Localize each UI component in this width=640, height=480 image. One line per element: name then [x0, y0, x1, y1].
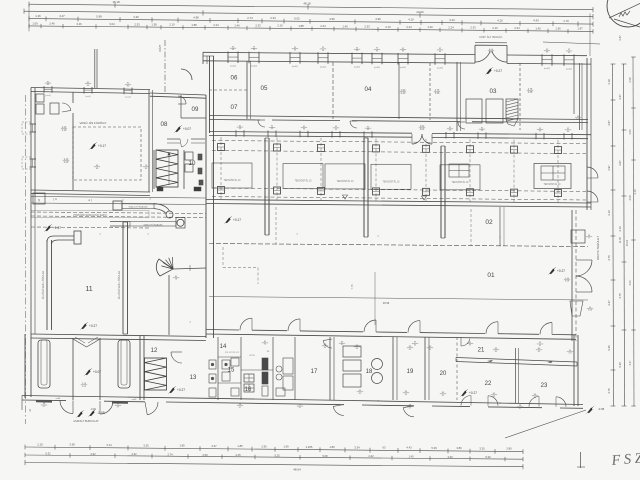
svg-text:2.97: 2.97 [607, 165, 611, 171]
hall south wall inner [206, 334, 576, 339]
hall level mark [91, 143, 96, 149]
dimension line right v2 [624, 64, 625, 406]
left stall U strip 2 [118, 340, 130, 388]
central stall walls [72, 338, 74, 400]
left wing south wall [31, 190, 150, 192]
stair block north wall [150, 93, 206, 95]
vertical conveyor strip 2 [122, 222, 124, 334]
left wing north windows [43, 86, 45, 93]
svg-text:(a=42): (a=42) [400, 67, 406, 69]
svg-text:+0.17: +0.17 [233, 218, 241, 222]
svg-text:1.26: 1.26 [35, 14, 41, 18]
svg-text:20: 20 [440, 371, 447, 377]
svg-text:08: 08 [161, 121, 168, 128]
svg-text:23: 23 [541, 383, 548, 389]
svg-text:11.80: 11.80 [619, 236, 622, 243]
svg-text:3.25: 3.25 [143, 443, 149, 447]
svg-text:(a=42): (a=42) [230, 66, 236, 68]
svg-text:2.24: 2.24 [213, 23, 219, 27]
svg-text:(a=42): (a=42) [544, 68, 550, 70]
svg-text:1.85: 1.85 [179, 444, 185, 448]
svg-text:2.10: 2.10 [492, 26, 498, 30]
svg-text:+0.27: +0.27 [89, 324, 97, 328]
east wall lower jog [570, 301, 583, 316]
svg-text:4.19: 4.19 [633, 189, 637, 195]
trough bar rooms 21-23 [456, 358, 577, 363]
svg-text:1.45: 1.45 [408, 455, 414, 459]
svg-text:+0.27: +0.27 [469, 391, 477, 395]
svg-text:4.37: 4.37 [211, 444, 217, 448]
bottom wing north wall left [31, 334, 206, 337]
north block north wall inner [203, 61, 475, 63]
yard dashed line 2 [31, 227, 150, 228]
svg-text:2.47: 2.47 [618, 35, 622, 41]
svg-text:KOZTA TERÜLET: KOZTA TERÜLET [596, 236, 600, 260]
svg-text:92 95: 92 95 [249, 355, 255, 357]
svg-text:1.40: 1.40 [535, 26, 541, 30]
svg-text:2.33: 2.33 [255, 24, 261, 28]
leader line bottom right [505, 410, 586, 438]
svg-text:2.33: 2.33 [134, 22, 140, 26]
svg-text:5.98: 5.98 [96, 14, 102, 18]
svg-text:2.90: 2.90 [261, 444, 267, 448]
room 20-21 dashed wall [456, 337, 458, 400]
svg-text:2.59: 2.59 [202, 453, 208, 457]
svg-text:2.24: 2.24 [406, 25, 412, 29]
svg-text:1.09: 1.09 [32, 21, 38, 25]
wall 08-10 horizontal [167, 138, 180, 140]
svg-text:4.10: 4.10 [497, 18, 503, 22]
svg-text:3.20: 3.20 [479, 446, 485, 450]
yard lamp [156, 259, 173, 276]
left wing west windows [30, 123, 37, 125]
column line above wall [374, 272, 376, 325]
svg-text:3.10: 3.10 [618, 226, 622, 232]
hall inner line [209, 297, 588, 301]
left stall U strip 1 [38, 340, 50, 388]
svg-text:6.32: 6.32 [45, 451, 51, 455]
left wing east wall [148, 90, 150, 192]
vertical conveyor strip 1 [46, 240, 48, 330]
stall gridded rect right [534, 164, 571, 189]
svg-text:21: 21 [478, 348, 485, 354]
svg-text:+0.27: +0.27 [177, 388, 185, 392]
svg-text:29.02: 29.02 [626, 239, 629, 246]
svg-text:5.35: 5.35 [618, 362, 622, 368]
svg-text:2.10: 2.10 [64, 162, 69, 164]
stall band entry double door [412, 134, 422, 144]
dim connector NE corner [589, 14, 591, 57]
svg-text:3.67: 3.67 [607, 120, 611, 126]
porch line [543, 42, 600, 44]
svg-text:4.43: 4.43 [533, 19, 539, 23]
north block south wall [209, 116, 588, 120]
svg-text:(a=4): (a=4) [125, 97, 130, 99]
dimension line bottom row2 [25, 455, 523, 459]
svg-text:3.46: 3.46 [76, 22, 82, 26]
rooms 14-16 walls [217, 337, 219, 400]
curved closet wall [181, 69, 192, 80]
svg-text:3.38: 3.38 [528, 92, 533, 94]
svg-text:18: 18 [366, 369, 373, 375]
south gate double arcs [60, 401, 73, 414]
svg-text:1.40: 1.40 [234, 23, 240, 27]
south wall dark window segments [36, 400, 52, 402]
svg-text:2.10: 2.10 [277, 24, 283, 28]
svg-text:1.40: 1.40 [427, 25, 433, 29]
conveyor roller [166, 211, 173, 218]
svg-text:4.96: 4.96 [329, 17, 335, 21]
dark marks CE [157, 187, 163, 191]
svg-text:48.04: 48.04 [293, 468, 301, 472]
dimension line top overall [29, 4, 593, 10]
svg-text:2.25: 2.25 [235, 453, 241, 457]
svg-text:TEKNŐSTÁL 10: TEKNŐSTÁL 10 [383, 180, 400, 183]
asphalt label [78, 411, 83, 417]
svg-text:2.10: 2.10 [607, 210, 611, 216]
yard gate dashed lines [31, 212, 206, 214]
level 08 [176, 126, 181, 132]
svg-text:+0.17: +0.17 [98, 144, 106, 148]
left wing closet rects [36, 94, 44, 102]
svg-text:SZÁLLÍTÓSZALAG: SZÁLLÍTÓSZALAG [144, 223, 163, 226]
svg-text:4.43: 4.43 [406, 446, 412, 450]
dimension line bottom row1 [25, 447, 523, 452]
stair side wall [153, 150, 155, 189]
main stair [156, 150, 178, 187]
svg-text:7.75: 7.75 [350, 284, 354, 290]
interior wall 06-05 [246, 61, 248, 119]
room 10 door [178, 96, 186, 104]
room 22-23 wall [515, 348, 517, 403]
svg-text:22: 22 [485, 381, 492, 387]
svg-text:+1.57: +1.57 [53, 226, 61, 230]
east door mid [587, 167, 598, 178]
svg-text:2.32: 2.32 [131, 452, 137, 456]
svg-text:3.30: 3.30 [447, 455, 453, 459]
bottom wing south wall right [320, 400, 583, 405]
south door 2 [147, 402, 158, 415]
hall south wall outer [206, 329, 239, 332]
room 10 fixtures [185, 152, 193, 160]
svg-text:2.42: 2.42 [368, 454, 374, 458]
svg-text:09: 09 [192, 106, 199, 113]
svg-text:5.08: 5.08 [322, 454, 328, 458]
svg-text:2.60: 2.60 [628, 129, 632, 135]
svg-text:[ 4: [ 4 [53, 197, 57, 201]
stall rects [212, 163, 252, 188]
interior wall 03 west [456, 62, 458, 131]
svg-text:1.70: 1.70 [563, 19, 569, 23]
svg-text:02: 02 [485, 219, 493, 226]
svg-text:2.42: 2.42 [401, 92, 406, 95]
bottom right end tick [580, 452, 582, 468]
svg-text:13: 13 [190, 375, 197, 381]
svg-text:3.89: 3.89 [456, 446, 462, 450]
svg-text:TEKNŐSTÁL 10: TEKNŐSTÁL 10 [337, 180, 354, 183]
svg-text:KÖZT: KÖZT [158, 44, 162, 51]
room 18-19 wall [392, 337, 394, 400]
svg-text:5.02: 5.02 [294, 16, 300, 20]
detail circle top right [607, 0, 640, 27]
svg-text:4.10: 4.10 [408, 18, 414, 22]
svg-text:06: 06 [231, 75, 238, 82]
room 18 fixtures [343, 346, 361, 357]
svg-text:≡ ]: ≡ ] [88, 198, 91, 202]
svg-text:1.85: 1.85 [237, 444, 243, 448]
svg-text:4.75: 4.75 [607, 388, 611, 394]
svg-text:TEKNŐSTÁL 10: TEKNŐSTÁL 10 [224, 179, 241, 182]
svg-text:1.465: 1.465 [306, 445, 313, 449]
svg-text:3.14: 3.14 [106, 443, 112, 447]
svg-text:FSZ: FSZ [610, 450, 640, 469]
svg-text:(a=42): (a=42) [320, 66, 326, 68]
interior wall 04-03 [398, 62, 400, 119]
svg-text:15: 15 [228, 368, 235, 374]
left wing door [62, 103, 71, 110]
room 19-20 wall [424, 337, 426, 400]
bottom wing south wall left [22, 396, 320, 401]
stall band north wall [209, 132, 412, 134]
dimension line bottom total [25, 463, 523, 467]
svg-text:SZÁLLÍTÓSZALAG: SZÁLLÍTÓSZALAG [129, 206, 148, 209]
svg-text:KOZT. ÁLT. ISKOLÁJ.: KOZT. ÁLT. ISKOLÁJ. [479, 36, 503, 39]
bottom wing west wall [24, 334, 26, 398]
svg-text:3.38: 3.38 [69, 443, 75, 447]
hall dashed step [222, 247, 224, 268]
svg-text:2.19: 2.19 [37, 442, 43, 446]
svg-text:(a=42): (a=42) [251, 66, 257, 68]
room 17 fixtures [294, 337, 296, 400]
svg-text:1.88: 1.88 [191, 23, 197, 27]
svg-text:17: 17 [311, 369, 318, 375]
left stalls room east wall [139, 336, 141, 400]
svg-text:2.24: 2.24 [448, 25, 454, 29]
svg-text:4.96: 4.96 [375, 17, 381, 21]
hall east wall [571, 210, 573, 341]
svg-text:(a=42): (a=42) [374, 67, 380, 69]
svg-text:+0.27: +0.27 [557, 269, 565, 273]
svg-text:2.58: 2.58 [628, 77, 632, 83]
svg-text:2.18: 2.18 [62, 130, 67, 132]
svg-text:63: 63 [383, 446, 386, 450]
svg-text:03: 03 [490, 88, 497, 95]
svg-text:48.18: 48.18 [303, 2, 311, 6]
svg-text:3.38: 3.38 [435, 93, 440, 95]
svg-text:4.75: 4.75 [618, 293, 622, 299]
svg-text:4.98: 4.98 [193, 15, 199, 19]
svg-text:01: 01 [487, 272, 495, 279]
east double doors [576, 260, 592, 276]
svg-text:1.80: 1.80 [329, 445, 335, 449]
svg-text:2/5 1/2 2/5 1/2: 2/5 1/2 2/5 1/2 [225, 352, 240, 354]
svg-text:3.47: 3.47 [607, 300, 611, 306]
svg-text:04: 04 [365, 86, 372, 93]
stall band dashed rows [212, 141, 586, 144]
svg-text:2.92: 2.92 [90, 452, 96, 456]
svg-text:2.80: 2.80 [506, 447, 512, 451]
svg-text:3.47: 3.47 [59, 14, 65, 18]
wall 06-07 dashed [209, 89, 247, 91]
stall band south wall [206, 200, 591, 204]
level mark 01 right [550, 268, 555, 274]
corridor wall east pair [209, 56, 211, 133]
svg-text:2.74: 2.74 [167, 453, 173, 457]
svg-text:(a=42): (a=42) [437, 67, 443, 69]
svg-text:3.47: 3.47 [618, 94, 622, 100]
property line left dash-dot [25, 95, 27, 424]
svg-text:5.39: 5.39 [431, 446, 437, 450]
svg-text:5.39: 5.39 [485, 455, 491, 459]
svg-text:HINTÁRÓ SZAKGYÜK KAPU: HINTÁRÓ SZAKGYÜK KAPU [73, 214, 106, 217]
svg-text:ASZFALT BURKOLAT: ASZFALT BURKOLAT [73, 419, 99, 423]
svg-text:2.33: 2.33 [470, 26, 476, 30]
svg-text:+0.07: +0.07 [93, 370, 101, 374]
central stall chevron [73, 339, 87, 347]
svg-text:4.43: 4.43 [449, 18, 455, 22]
svg-text:+0.27: +0.27 [494, 69, 502, 73]
svg-text:14: 14 [220, 344, 227, 350]
dimension line top second [24, 11, 593, 16]
svg-text:(a=42): (a=42) [566, 68, 572, 70]
svg-text:1.90: 1.90 [283, 445, 289, 449]
dimension line right v1 [613, 64, 614, 406]
svg-text:2.74: 2.74 [247, 16, 253, 20]
svg-text:3.19: 3.19 [607, 79, 611, 85]
svg-text:2.24: 2.24 [514, 26, 520, 30]
svg-text:5.25: 5.25 [274, 453, 280, 457]
street line KOZT [164, 40, 166, 92]
svg-text:2.10: 2.10 [169, 23, 175, 27]
section arrows [343, 195, 348, 199]
north block east wall [586, 58, 588, 210]
svg-text:1.36: 1.36 [555, 26, 561, 30]
svg-text:5.35: 5.35 [607, 345, 611, 351]
conveyor 2 [110, 221, 130, 223]
svg-text:TEKNŐSTÁL 10: TEKNŐSTÁL 10 [452, 181, 469, 184]
svg-text:(a=42): (a=42) [354, 67, 360, 69]
hall ceiling dashed rect [73, 127, 141, 180]
yard west wall [30, 196, 32, 334]
svg-text:2.10: 2.10 [385, 25, 391, 29]
level 11 [82, 323, 87, 329]
svg-text:05: 05 [261, 85, 268, 92]
svg-text:(a=42): (a=42) [292, 66, 298, 68]
level 03 [487, 68, 492, 74]
hanging strips [264, 138, 266, 235]
svg-text:4.75: 4.75 [607, 255, 611, 261]
svg-text:1.38: 1.38 [151, 23, 157, 27]
svg-text:10: 10 [189, 160, 196, 167]
svg-text:15.18: 15.18 [112, 0, 120, 4]
stall band wall windows [235, 130, 237, 137]
interior wall 05-04 [332, 62, 334, 119]
hall 01 top line [209, 244, 588, 247]
hall south doors opening up [240, 318, 252, 330]
dimension line top row4 [29, 26, 593, 32]
property line top left vertical [96, 49, 98, 88]
svg-text:2.34: 2.34 [270, 16, 276, 20]
entrance bay [474, 45, 476, 63]
north block north wall outer [203, 52, 475, 54]
svg-text:3.34: 3.34 [354, 445, 360, 449]
svg-text:3.04: 3.04 [109, 22, 115, 26]
entrance double door arcs [475, 51, 490, 62]
level mark 02 left [226, 217, 231, 223]
connector dashes [275, 207, 277, 244]
svg-text:-0.98: -0.98 [598, 407, 605, 411]
corridor lines below left wing [31, 197, 206, 199]
north wall windows [227, 52, 229, 64]
svg-text:1.40: 1.40 [342, 24, 348, 28]
left wing interior wall [72, 92, 74, 103]
south doors right [333, 406, 344, 415]
svg-text:(a=4): (a=4) [85, 96, 90, 98]
room 09 walls [180, 95, 182, 118]
svg-text:11: 11 [85, 286, 92, 293]
svg-text:38.98: 38.98 [383, 301, 390, 305]
room 03 right dashed wall [519, 63, 521, 130]
svg-text:4.08: 4.08 [628, 195, 632, 201]
rooms 14-16 fixtures [209, 360, 216, 369]
svg-text:2.24: 2.24 [320, 24, 326, 28]
svg-text:4.50: 4.50 [628, 280, 632, 286]
svg-text:KÜLÖNÖ SZÁLLÍTÓÜLAG: KÜLÖNÖ SZÁLLÍTÓÜLAG [42, 271, 45, 300]
svg-text:19: 19 [407, 369, 414, 375]
svg-text:07: 07 [231, 104, 238, 111]
svg-text:(a=4): (a=4) [45, 95, 50, 97]
svg-text:4.30: 4.30 [133, 15, 139, 19]
stall small grid mid [449, 164, 469, 177]
stair room 12 [145, 358, 167, 390]
svg-text:3.47: 3.47 [628, 360, 632, 366]
svg-text:2.33: 2.33 [364, 25, 370, 29]
left wing west wall [30, 88, 32, 197]
svg-text:22.60: 22.60 [416, 10, 424, 14]
room 03 fixtures [466, 99, 482, 123]
bottom wing east wall [577, 335, 579, 406]
room 17-18 wall [329, 337, 331, 400]
svg-text:1.88: 1.88 [298, 24, 304, 28]
svg-text:1.97: 1.97 [577, 27, 583, 31]
svg-text:+0.07: +0.07 [183, 127, 191, 131]
conveyor top [113, 201, 122, 210]
north wall door arcs bottom wing [323, 341, 332, 348]
dim connector left end [28, 4, 30, 31]
svg-text:12: 12 [151, 348, 158, 354]
svg-text:2.46: 2.46 [49, 22, 55, 26]
interior wall 04 east dashed [429, 63, 431, 120]
svg-text:16: 16 [245, 387, 252, 393]
dimension line right v3 [633, 57, 634, 406]
interior wall 03 east [573, 66, 575, 114]
north block west corner step [202, 52, 204, 64]
svg-text:TEKNŐSTÁL 10: TEKNŐSTÁL 10 [295, 180, 312, 183]
east wall pilaster [571, 230, 585, 243]
svg-text:2.67: 2.67 [618, 160, 622, 166]
left wing north wall [31, 88, 150, 90]
dimension line top row3 [29, 19, 593, 25]
svg-text:2.02: 2.02 [420, 129, 425, 131]
stall band columns [220, 137, 222, 202]
svg-text:VASÚ- ÉS FŰZŐGY: VASÚ- ÉS FŰZŐGY [79, 120, 106, 125]
room 03 east inner wall [579, 63, 581, 130]
corridor door arcs [258, 120, 265, 127]
svg-text:TEKNŐSTÁL 10: TEKNŐSTÁL 10 [544, 183, 561, 186]
svg-text:KÜLÖNÖ SZÁLLÍTÓÜLAG: KÜLÖNÖ SZÁLLÍTÓÜLAG [118, 271, 121, 300]
svg-text:-0.05: -0.05 [97, 411, 104, 415]
